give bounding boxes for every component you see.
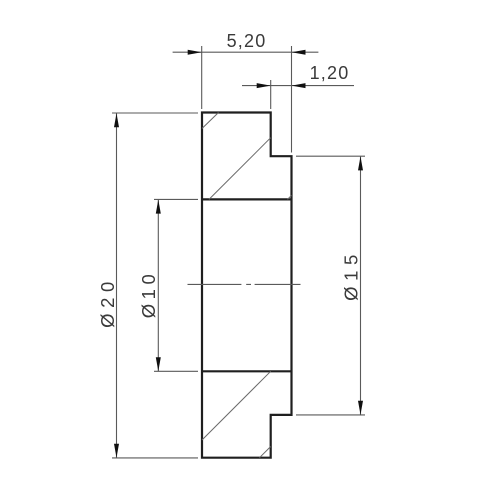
arrowhead Ø20 top	[114, 113, 119, 127]
svg-text:1,20: 1,20	[310, 63, 350, 83]
extension line step face (for 1,20)	[270, 80, 272, 109]
dimension line Ø15	[360, 157, 362, 415]
hatch line bottom flange long	[202, 371, 271, 440]
svg-text:Ø10: Ø10	[138, 270, 159, 318]
arrowhead 5,20 left	[188, 50, 202, 55]
arrowhead Ø20 bottom	[114, 444, 119, 458]
arrowhead Ø15 bottom	[358, 401, 363, 415]
dimension line Ø20	[116, 114, 118, 458]
extension line bore bottom (for Ø10)	[154, 370, 198, 372]
svg-text:Ø20: Ø20	[97, 276, 118, 328]
arrowhead 1,20 right	[292, 83, 306, 88]
svg-text:Ø15: Ø15	[340, 249, 361, 301]
dimension line Ø10	[157, 200, 159, 371]
arrowhead Ø10 top	[156, 200, 161, 214]
bore top edge	[202, 198, 292, 200]
svg-text:5,20: 5,20	[227, 31, 267, 51]
hatch line top flange long	[209, 138, 271, 200]
hatch line top flange upper-left	[202, 113, 219, 129]
arrowhead 1,20 left	[257, 83, 271, 88]
dimension line 5,20	[173, 51, 319, 53]
dimension line 1,20	[242, 85, 354, 87]
hatch line top flange lower-right corner	[288, 195, 292, 199]
part outline (section profile)	[202, 113, 292, 458]
bore bottom edge	[202, 370, 292, 372]
extension line left face top (for 5,20)	[201, 46, 203, 109]
arrowhead Ø15 top	[358, 156, 363, 170]
arrowhead 5,20 right	[292, 50, 306, 55]
extension line outer diameter bottom (for Ø20)	[112, 457, 198, 459]
hatch line bottom flange lower-right	[260, 447, 271, 458]
arrowhead Ø10 bottom	[156, 357, 161, 371]
centerline (dash-dot axis)	[188, 283, 301, 285]
extension line boss bottom (for Ø15)	[296, 414, 365, 416]
extension line outer diameter top (for Ø20)	[112, 112, 198, 114]
extension line bore top (for Ø10)	[154, 198, 198, 200]
extension line boss top (for Ø15)	[296, 155, 365, 157]
extension line right face (for 5,20 and 1,20)	[291, 46, 293, 153]
